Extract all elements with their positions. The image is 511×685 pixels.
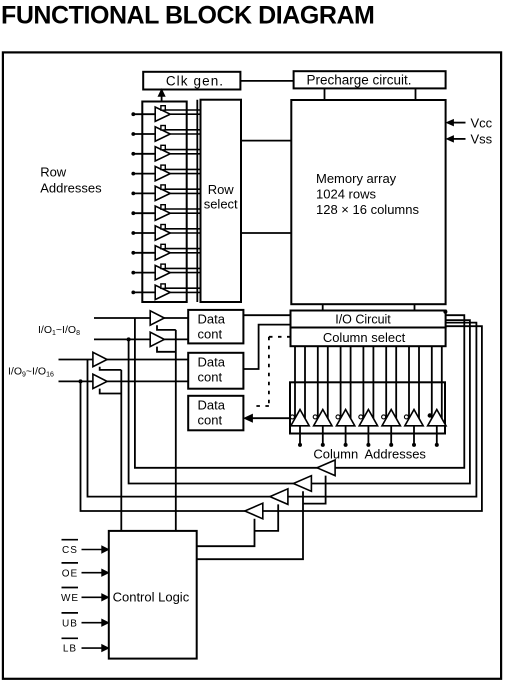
wire precharge to memory right: [415, 88, 417, 100]
loop wire pad line3 to I/O circuit: [88, 323, 477, 497]
control input LB: [62, 638, 109, 654]
row select box: [201, 100, 242, 302]
wire row select to memory lower: [241, 232, 291, 234]
row address buffer A4: [131, 165, 200, 181]
svg-text:WE: WE: [61, 593, 79, 604]
row address buffer A6: [131, 205, 200, 221]
output buffer Q3: [197, 476, 312, 560]
control logic box: [109, 531, 197, 659]
svg-text:1024 rows: 1024 rows: [316, 187, 376, 202]
dashed wire column select to data cont3: [252, 337, 291, 406]
svg-text:Clk gen.: Clk gen.: [166, 74, 224, 89]
wire B4 branch: [100, 389, 122, 394]
svg-text:Vcc: Vcc: [471, 115, 493, 130]
I/O buffer B3: [93, 352, 107, 366]
row address buffer A8: [131, 244, 200, 260]
sense amp S6: [404, 346, 423, 447]
title FUNCTIONAL BLOCK DIAGRAM: [1, 2, 374, 30]
sense amp S4: [359, 346, 378, 447]
wire memory to I/O circuit left: [322, 304, 324, 310]
row address buffer A3: [131, 145, 200, 161]
svg-text:Vss: Vss: [471, 132, 493, 147]
sense amp S3: [336, 346, 355, 447]
sense amp box: [290, 382, 445, 433]
output buffer Q4: [303, 460, 335, 504]
junction dot pad line 4: [79, 379, 83, 383]
row address buffer A10: [131, 284, 200, 300]
svg-text:Addresses: Addresses: [40, 180, 102, 195]
wire B1 branch: [157, 325, 176, 330]
I/O buffer B4: [93, 374, 107, 388]
wire data cont1 to I/O circuit: [243, 314, 290, 316]
wire I/O1-8 lower pad line: [94, 338, 188, 340]
Vcc terminal: [447, 115, 493, 130]
control input CS: [62, 540, 109, 556]
wire row select to memory upper: [241, 140, 291, 142]
arrow wire sense box to data cont3: [244, 414, 292, 422]
I/O circuit box: [291, 311, 446, 328]
precharge circuit box: [294, 71, 446, 88]
wire B1-B2 feedback to control logic: [175, 330, 177, 531]
column select box: [291, 328, 446, 347]
output buffer Q1: [197, 503, 263, 546]
svg-text:Data: Data: [198, 354, 226, 369]
svg-text:OE: OE: [62, 568, 78, 579]
clock generator box: [143, 72, 240, 90]
I/O buffer B2: [150, 332, 164, 346]
output buffer Q2: [255, 489, 288, 531]
loop wire pad line2 to I/O circuit: [129, 320, 470, 483]
label I/O1-I/O8: [38, 324, 80, 337]
loop wire pad line1 to I/O circuit: [135, 315, 464, 468]
svg-text:LB: LB: [63, 644, 77, 655]
wire B3-B4 feedback to control logic: [120, 370, 122, 531]
wire clkgen to precharge: [240, 80, 293, 82]
svg-text:I/O Circuit: I/O Circuit: [335, 313, 391, 327]
svg-text:Data: Data: [198, 312, 226, 327]
svg-text:FUNCTIONAL BLOCK DIAGRAM: FUNCTIONAL BLOCK DIAGRAM: [1, 2, 374, 30]
wire B2 branch: [157, 347, 176, 352]
Vss terminal: [447, 132, 493, 147]
label Column Addresses: [313, 447, 426, 462]
clock arrow to clk gen: [158, 89, 165, 101]
control input OE: [62, 563, 109, 579]
sense amp S7: [428, 346, 446, 447]
svg-text:Column: Column: [313, 447, 358, 462]
wire precharge to memory left: [324, 88, 326, 100]
svg-text:Control Logic: Control Logic: [113, 590, 190, 605]
sense amp S5: [382, 346, 401, 447]
label Row Addresses: [40, 165, 102, 196]
row address buffer box: [142, 102, 186, 303]
data cont box 3: [188, 396, 243, 431]
row address buffer A2: [131, 126, 200, 142]
row address buffer A1: [131, 106, 200, 122]
wire memory to I/O circuit right: [414, 304, 416, 310]
svg-text:select: select: [204, 197, 238, 212]
label I/O9-I/O16: [8, 366, 54, 379]
data cont box 2: [188, 353, 243, 389]
I/O buffer B1: [150, 311, 164, 325]
loop wire pad line4 to I/O circuit: [81, 326, 482, 511]
svg-text:cont: cont: [198, 369, 223, 384]
svg-text:Data: Data: [198, 397, 226, 412]
row address buffer A7: [131, 225, 200, 241]
memory array box: [291, 100, 445, 304]
row address buffer A5: [131, 185, 200, 201]
svg-text:128 × 16 columns: 128 × 16 columns: [316, 202, 419, 217]
wire I/O9-16 upper pad line: [59, 359, 189, 361]
svg-text:CS: CS: [62, 545, 78, 556]
data cont box 1: [188, 310, 243, 344]
sense amp S2: [313, 346, 332, 447]
control input WE: [61, 588, 109, 604]
wire I/O9-16 lower pad line: [59, 380, 189, 382]
sense amp S1: [290, 346, 309, 447]
svg-text:Row: Row: [208, 182, 235, 197]
junction dot I/O circuit corner: [443, 310, 447, 314]
svg-text:Addresses: Addresses: [365, 447, 427, 462]
wire data cont2 to I/O circuit: [243, 325, 290, 369]
svg-text:UB: UB: [62, 618, 78, 629]
svg-text:Precharge circuit.: Precharge circuit.: [306, 73, 411, 88]
wire I/O1-8 upper pad line: [94, 317, 188, 319]
control input UB: [62, 613, 109, 629]
svg-text:Row: Row: [40, 165, 67, 180]
wire B3 branch: [100, 367, 122, 370]
junction dot pad line 2: [127, 337, 131, 341]
svg-text:Column select: Column select: [323, 330, 406, 345]
svg-text:cont: cont: [198, 327, 223, 342]
svg-text:cont: cont: [198, 412, 223, 427]
svg-text:I/O1~I/O8: I/O1~I/O8: [38, 324, 80, 337]
row select inner left line: [196, 100, 198, 302]
svg-text:Memory array: Memory array: [316, 171, 397, 186]
row address buffer A9: [131, 264, 200, 280]
